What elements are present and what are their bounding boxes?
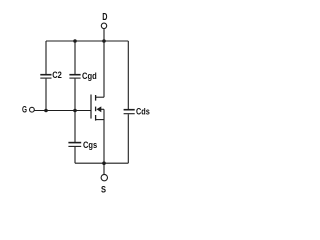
svg-text:Cds: Cds — [136, 107, 150, 118]
wire Cgs column lower — [74, 147, 76, 163]
svg-text:G: G — [22, 104, 27, 115]
mosfet Q1 channel bottom segment — [95, 115, 97, 121]
wire top rail — [46, 40, 128, 42]
wire gate lead — [34, 110, 91, 112]
svg-text:D: D — [102, 11, 107, 23]
node dot top rail at Cgd column — [73, 39, 77, 43]
svg-text:C2: C2 — [52, 70, 62, 81]
capacitor Cgd — [69, 74, 80, 76]
wire left column lower — [45, 79, 47, 111]
mosfet Q1 channel top segment — [95, 95, 97, 101]
terminal G circle — [30, 107, 35, 112]
mosfet Q1 gate bar — [90, 95, 92, 119]
node dot bottom rail at source — [102, 161, 106, 165]
mosfet Q1 body arrow — [96, 106, 101, 112]
wire S stub — [103, 163, 105, 174]
capacitor Cds — [124, 109, 135, 111]
capacitor Cgs — [68, 142, 81, 144]
wire source column — [103, 109, 105, 163]
node dot gate wire at Cgd column — [73, 109, 77, 113]
capacitor C2 — [40, 74, 51, 76]
wire Cgd-to-Cgs column — [74, 79, 76, 143]
wire drain column — [103, 41, 105, 97]
svg-text:Cgd: Cgd — [82, 71, 97, 82]
svg-text:S: S — [101, 184, 106, 195]
terminal D circle — [101, 23, 106, 28]
wire left column upper — [45, 41, 47, 74]
wire Cgd column upper — [74, 41, 76, 74]
wire Cds column lower — [127, 114, 129, 163]
wire bottom rail — [75, 162, 128, 164]
wire Cds column upper — [127, 41, 129, 109]
node dot top rail at drain column — [102, 39, 106, 43]
wire D stub — [103, 29, 105, 41]
mosfet Q1 source tap — [96, 119, 104, 121]
mosfet Q1 drain tap — [96, 96, 104, 98]
mosfet Q1 channel middle segment — [95, 107, 97, 112]
terminal S circle — [101, 174, 107, 180]
svg-text:Cgs: Cgs — [83, 140, 97, 151]
node dot gate wire at C2 column — [44, 109, 48, 113]
